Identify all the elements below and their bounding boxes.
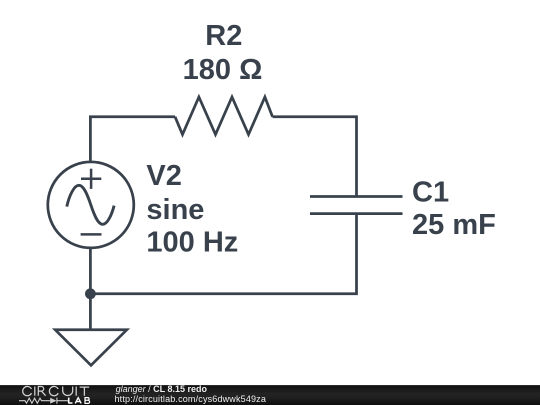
- wire junction to ground: [89, 294, 92, 330]
- ground: [55, 330, 127, 366]
- footer bar: [0, 385, 540, 405]
- wire source bottom to junction: [89, 248, 92, 294]
- circuitlab logo: [0, 384, 110, 405]
- wire bottom-right: capacitor bottom to bottom rail: [90, 214, 356, 294]
- resistor R2: [175, 97, 273, 135]
- voltage source V2: [48, 162, 134, 248]
- wire top-right: resistor right to capacitor top: [273, 117, 357, 197]
- node junction: [85, 288, 96, 299]
- capacitor C1: [310, 197, 403, 214]
- wire top-left: source top to resistor left: [90, 117, 175, 161]
